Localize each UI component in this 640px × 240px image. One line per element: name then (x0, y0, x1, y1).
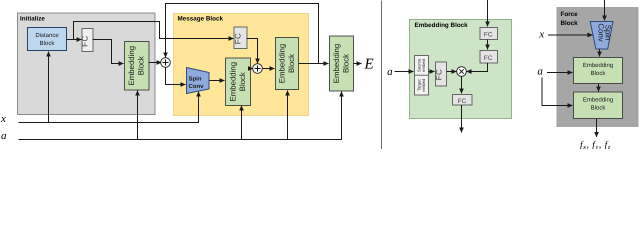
node sum2 circle-plus (253, 64, 263, 74)
svg-text:FC: FC (81, 35, 90, 46)
Message Block container (174, 14, 309, 116)
svg-text:Spin: Spin (189, 76, 202, 83)
svg-text:embed: embed (421, 78, 426, 91)
block Embedding f2 (574, 92, 623, 119)
wire FC msg to sum2 (247, 39, 258, 64)
wire FC1 to FC2 (487, 40, 489, 50)
svg-text:Embedding: Embedding (277, 44, 286, 83)
wire a to Embedding init (137, 91, 139, 140)
wire Embedding msg1 to sum2 (251, 68, 254, 70)
svg-text:a: a (1, 130, 7, 142)
svg-text:Embedding: Embedding (228, 62, 237, 101)
wire FC2 to mult (467, 63, 488, 72)
wire a to Embedding f1 (547, 72, 573, 74)
svg-text:Block: Block (238, 72, 247, 91)
svg-text:Block: Block (40, 40, 56, 47)
svg-text:FC: FC (434, 69, 443, 80)
block FC2 (480, 51, 498, 64)
block Embedding msg1 (226, 58, 251, 106)
svg-text:a: a (537, 66, 543, 78)
svg-text:a: a (387, 66, 393, 78)
svg-text:FC: FC (484, 32, 493, 39)
svg-text:Conv: Conv (189, 83, 205, 90)
svg-text:x: x (538, 29, 544, 41)
node mult circle-times (457, 67, 467, 77)
wire embed to FC3 (429, 71, 435, 73)
wire a-line (19, 92, 342, 140)
wire loop from msg output to sum1 (166, 4, 319, 64)
wire FC3 to mult (447, 71, 457, 73)
svg-text:Distance: Distance (35, 32, 59, 39)
block Embedding out (330, 36, 354, 91)
svg-text:Embedding Block: Embedding Block (415, 22, 469, 29)
svg-text:Block: Block (137, 56, 146, 75)
wire a to Embedding msg1 (241, 106, 243, 140)
svg-text:Embedding: Embedding (583, 97, 613, 104)
svg-text:Block: Block (341, 54, 350, 73)
wire x to Spin Conv force (548, 34, 593, 36)
Force Block container (557, 7, 639, 127)
block Embedding f1 (574, 58, 623, 84)
svg-text:Conv: Conv (596, 23, 605, 41)
wire mult to FC4 (461, 76, 463, 94)
block FC4 (453, 95, 473, 106)
block FC3 (436, 62, 447, 86)
wire a to embed boxes (395, 71, 414, 73)
divider line (381, 1, 383, 150)
svg-text:Message Block: Message Block (178, 15, 224, 22)
wire x-line (19, 92, 199, 123)
wire top input to Spin Conv force (604, 0, 606, 21)
svg-text:Embedding: Embedding (332, 44, 341, 83)
node sum1 circle-plus (161, 58, 171, 68)
svg-text:Initialize: Initialize (20, 15, 45, 22)
block Spin Conv msg (187, 68, 210, 94)
wire FC4 output (461, 105, 463, 133)
wire Spin Conv force to Embedding f1 (599, 49, 601, 57)
block FC1 (480, 28, 498, 40)
wire a to Embedding msg2 (287, 91, 289, 140)
wire Embedding f2 output (596, 119, 598, 138)
svg-text:x: x (0, 113, 6, 125)
svg-text:Block: Block (591, 105, 607, 112)
wire Spin Conv to Embedding msg1 (210, 80, 225, 82)
svg-text:E: E (364, 56, 374, 72)
block Embedding init (125, 42, 150, 91)
block FC msg (234, 27, 247, 49)
svg-text:Embedding: Embedding (583, 62, 613, 69)
wire Embedding out to E (354, 63, 362, 65)
wire Embedding f1 to f2 (598, 84, 600, 92)
wire sum1 to Spin Conv (166, 67, 186, 84)
Embedding Block detail container (410, 20, 512, 119)
svg-text:FC: FC (458, 98, 467, 105)
Initialize container (18, 13, 156, 115)
svg-text:FC: FC (233, 33, 242, 44)
wire A Distance branch to Message FC (74, 22, 234, 40)
block Spin Conv force (590, 22, 613, 50)
svg-text:Block: Block (561, 20, 579, 27)
wire x to Distance Block (48, 52, 50, 123)
wire a branch to Embedding f2 (542, 78, 573, 106)
svg-text:fx, fy, fz: fx, fy, fz (580, 140, 611, 149)
block source/target embed (415, 56, 429, 96)
svg-text:Block: Block (287, 54, 296, 73)
block Embedding msg2 (276, 38, 299, 90)
wire Embedding init to sum1 (149, 62, 162, 64)
svg-text:embed: embed (421, 58, 426, 71)
svg-text:Embedding: Embedding (127, 46, 136, 85)
svg-text:Force: Force (561, 11, 579, 18)
svg-text:FC: FC (484, 55, 493, 62)
wire FC init to Embedding init (93, 40, 124, 64)
wire top input to FC1 (487, 0, 489, 27)
wire Distance to FC (67, 39, 82, 41)
wire Embedding msg2 to Embedding out (junction at loop) (299, 63, 329, 65)
block FC init (82, 29, 93, 52)
wire sum2 to Embedding msg2 (262, 68, 274, 70)
block Distance Block (28, 28, 67, 51)
svg-text:Block: Block (591, 70, 607, 77)
